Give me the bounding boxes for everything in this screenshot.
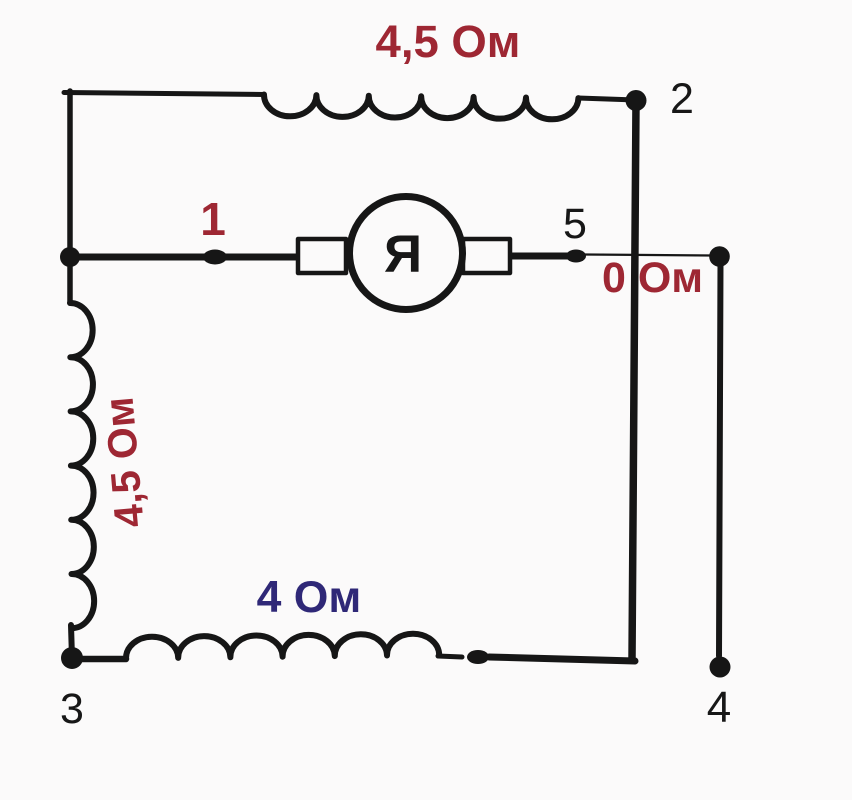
svg-text:4: 4 <box>707 683 731 732</box>
svg-text:1: 1 <box>200 193 226 245</box>
svg-text:3: 3 <box>60 685 84 733</box>
svg-text:Я: Я <box>384 225 422 284</box>
svg-text:0 Ом: 0 Ом <box>602 254 703 302</box>
svg-text:4,5 Ом: 4,5 Ом <box>376 16 521 67</box>
svg-text:5: 5 <box>563 200 587 248</box>
svg-text:2: 2 <box>670 75 694 123</box>
svg-text:4 Ом: 4 Ом <box>257 573 362 622</box>
